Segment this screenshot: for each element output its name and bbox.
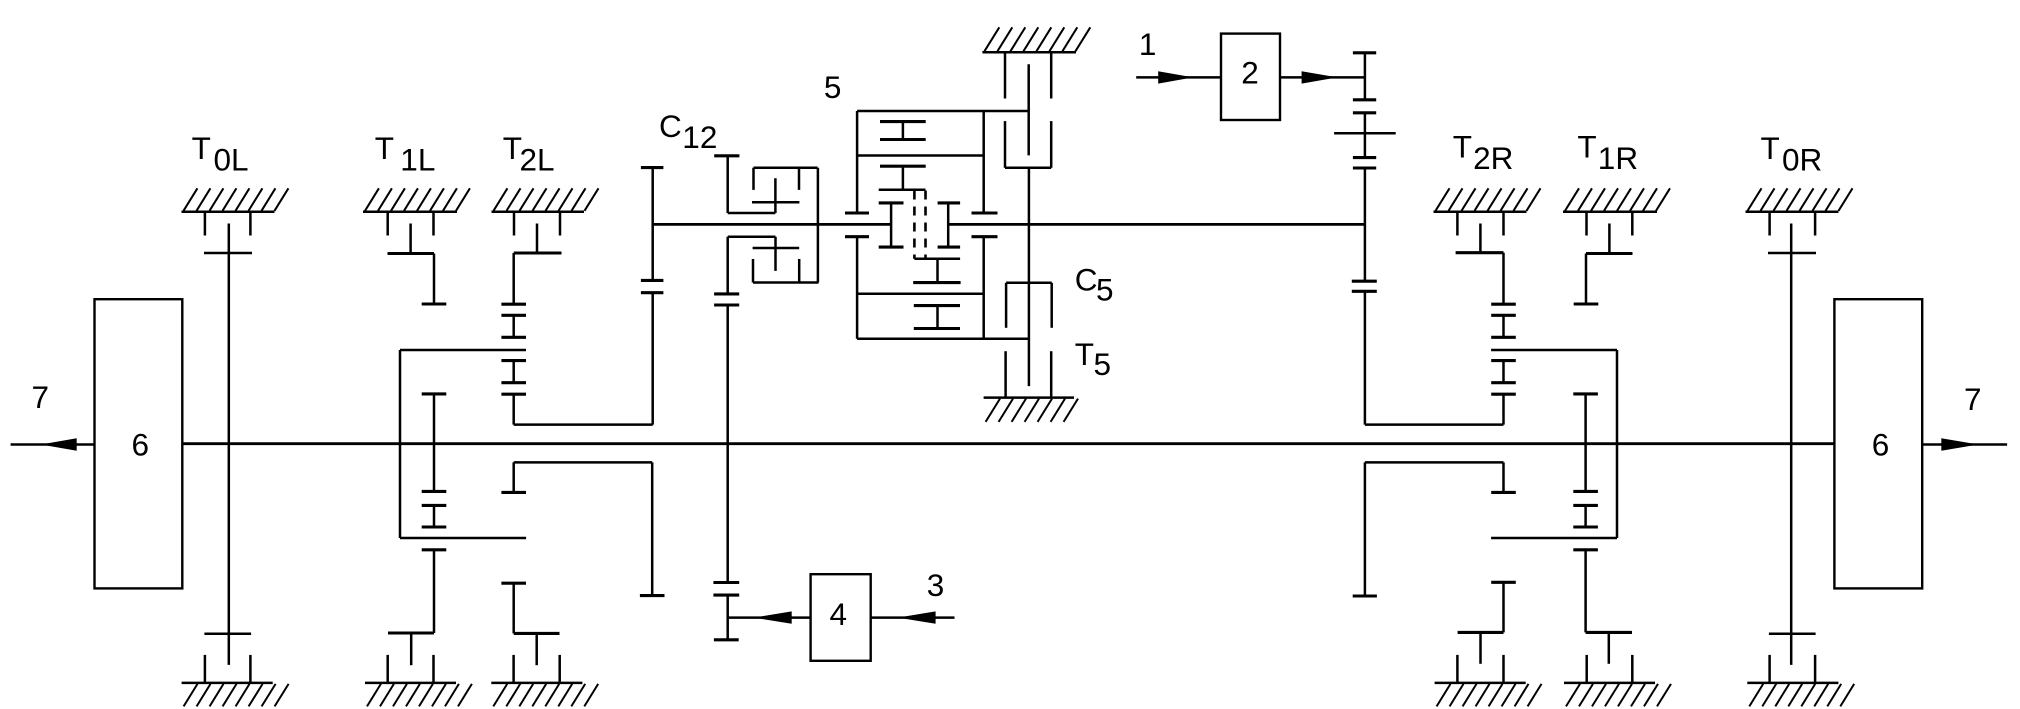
brake T2R fork: [1457, 212, 1503, 236]
brake T0L bottom fork: [205, 655, 251, 683]
planetary 5 bottom gear: [914, 306, 960, 329]
brake T0L top ground: [182, 188, 289, 212]
label 5: [824, 69, 842, 105]
svg-text:2: 2: [1241, 55, 1259, 91]
planetary 5 carrier top: [879, 188, 926, 191]
brake T0R fork: [1770, 212, 1816, 236]
ring shaft stem: [1028, 168, 1031, 386]
gear frame left: [400, 350, 526, 538]
clutch C5 top ground: [982, 27, 1090, 52]
box 2: [1221, 34, 1280, 120]
svg-text:7: 7: [32, 379, 50, 415]
label T1R: [1577, 129, 1638, 177]
planetary 5 right planet: [938, 203, 961, 247]
svg-text:1L: 1L: [400, 142, 435, 178]
brake T0L shaft: [204, 224, 252, 665]
input arrow 1: [1136, 71, 1221, 83]
svg-text:1R: 1R: [1598, 140, 1638, 176]
gear line T2R: [1491, 304, 1516, 424]
label T2R: [1453, 129, 1514, 177]
label T1L: [375, 130, 436, 178]
svg-text:5: 5: [1094, 346, 1112, 382]
arrow to box 4: [728, 611, 811, 623]
gear line T1R: [1573, 394, 1598, 633]
gear frame right: [1491, 350, 1617, 538]
svg-text:5: 5: [1096, 271, 1114, 307]
brake T2R top ground: [1434, 188, 1541, 212]
brake T5 bottom ground: [984, 398, 1078, 422]
brake T1R bottom leg: [1586, 632, 1632, 663]
brake T1R disc: [1574, 224, 1633, 305]
label T0L: [192, 130, 249, 178]
label T5: [1075, 336, 1111, 382]
clutch C12 left shaft: [641, 168, 664, 425]
clutch C12 drum upper: [754, 168, 818, 190]
output arrow 7 right: [1922, 438, 2007, 450]
clutch C12 drum wall: [817, 168, 820, 283]
carrier bracket left: [501, 462, 664, 595]
input shaft gear line: [1334, 53, 1396, 425]
brake T0L fork: [205, 212, 251, 236]
svg-text:1: 1: [1139, 26, 1157, 62]
svg-text:6: 6: [132, 426, 150, 462]
gear line T1L: [422, 394, 447, 633]
label 1: [1139, 26, 1157, 62]
brake T1R bottom ground: [1564, 683, 1671, 707]
svg-text:T: T: [1761, 130, 1780, 166]
planetary 5 carrier bottom: [913, 259, 960, 283]
planetary 5 left planet: [879, 203, 904, 247]
box 4: [811, 574, 871, 661]
label 7 right: [1964, 381, 1982, 417]
output arrow 7 left: [11, 438, 95, 450]
brake T2L disc: [514, 224, 562, 305]
brake T0R top ground: [1746, 188, 1853, 212]
planetary 5 housing: [845, 111, 1029, 339]
brake T2R bottom fork: [1457, 655, 1503, 683]
clutch C5 lower cup: [1006, 283, 1052, 328]
svg-text:T: T: [1075, 336, 1094, 372]
wire input to T2R elbow: [1365, 423, 1504, 426]
label C5: [1075, 261, 1114, 307]
brake T0R bottom ground: [1747, 683, 1854, 707]
brake T2R bottom ground: [1435, 683, 1542, 707]
svg-text:T: T: [1577, 129, 1596, 165]
svg-text:T: T: [375, 130, 394, 166]
svg-text:2L: 2L: [520, 142, 555, 178]
clutch C5 fork: [1005, 52, 1051, 98]
upper shaft axis: [653, 223, 1365, 226]
gear T2L lower: [501, 583, 559, 665]
label 3: [927, 567, 945, 603]
gear line T2L: [501, 304, 526, 424]
main axis shaft: [182, 442, 1834, 445]
brake T5 fork: [1006, 351, 1052, 397]
planetary 5 ring lines: [857, 156, 984, 294]
svg-text:C: C: [1075, 261, 1098, 297]
brake T0R bottom fork: [1770, 655, 1816, 683]
clutch C12 hub upper: [714, 156, 799, 213]
brake T2L bottom ground: [491, 683, 598, 707]
planetary 5 top gear: [880, 122, 926, 140]
svg-text:7: 7: [1964, 381, 1982, 417]
brake T1R top ground: [1563, 188, 1670, 212]
label 7 left: [32, 379, 50, 415]
wire T2L to C12 elbow: [514, 423, 653, 426]
label C12: [659, 108, 717, 155]
svg-text:C: C: [659, 108, 682, 144]
svg-text:5: 5: [824, 69, 842, 105]
clutch C5 cup: [1005, 121, 1051, 168]
brake T2L bottom fork: [514, 655, 560, 683]
svg-text:6: 6: [1872, 426, 1890, 462]
brake T0L bottom ground: [182, 683, 289, 707]
svg-text:12: 12: [682, 119, 717, 155]
svg-text:4: 4: [830, 596, 848, 632]
planetary 5 sun shaft gear: [880, 166, 926, 190]
planetary 5 planet pin: [914, 191, 925, 259]
brake T1L bottom ground: [365, 683, 472, 707]
arrow 3 to box 4: [871, 611, 955, 623]
brake T0R shaft: [1768, 224, 1816, 665]
brake T1R bottom fork: [1587, 655, 1633, 683]
svg-text:0L: 0L: [214, 142, 249, 178]
box 6 left: [95, 299, 183, 588]
label T2L: [503, 130, 555, 178]
brake T2L fork: [514, 212, 560, 236]
svg-text:T: T: [192, 130, 211, 166]
gear T2R lower: [1458, 582, 1516, 664]
brake T2R disc: [1456, 224, 1504, 305]
brake T1L bottom fork: [388, 655, 434, 683]
brake T1L bottom leg: [388, 633, 434, 665]
clutch C12 hub lower: [728, 237, 800, 294]
clutch C12 drum lower: [753, 259, 819, 283]
svg-text:3: 3: [927, 567, 945, 603]
label T0R: [1761, 130, 1823, 178]
svg-text:2R: 2R: [1473, 140, 1513, 176]
brake T1L disc: [388, 224, 447, 305]
svg-text:0R: 0R: [1782, 142, 1822, 178]
brake T1L fork: [388, 212, 434, 236]
svg-text:T: T: [1453, 129, 1472, 165]
brake T2L top ground: [492, 188, 599, 212]
clutch C5 stem: [1027, 64, 1030, 155]
carrier bracket right: [1353, 462, 1516, 596]
brake T1L top ground: [363, 188, 470, 212]
arrow box2 to shaft: [1280, 71, 1365, 83]
brake T1R fork: [1587, 212, 1633, 236]
box 6 right: [1834, 299, 1922, 588]
clutch C12 lower shaft: [713, 294, 739, 640]
